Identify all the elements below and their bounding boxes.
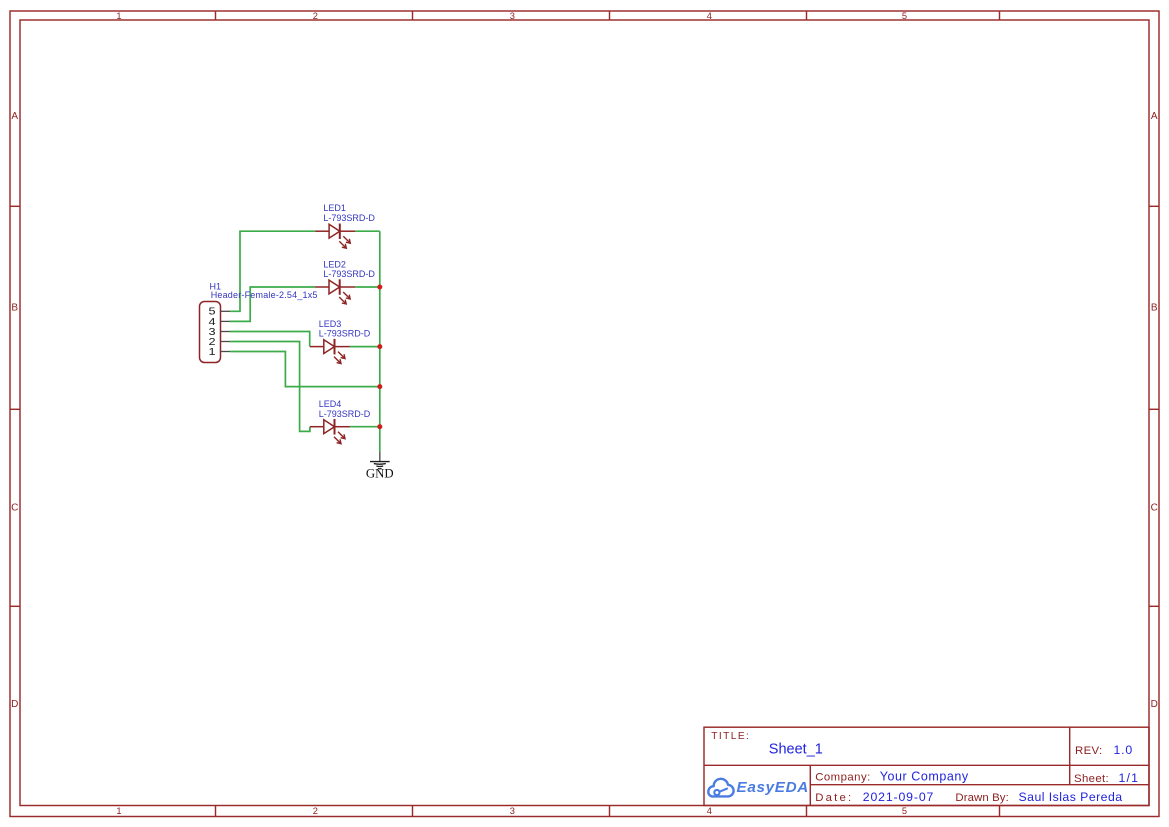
svg-text:1: 1 (116, 11, 121, 21)
H1 pin numbers (208, 306, 216, 358)
svg-text:GND: GND (366, 467, 394, 481)
wire net4 LED2 cathode to bus (355, 286, 380, 288)
svg-text:Your Company: Your Company (880, 769, 969, 783)
LED4 cathode bar (334, 419, 336, 435)
GND bar 2 (374, 463, 386, 466)
LED1 cathode bar (339, 224, 341, 240)
svg-text:Company:: Company: (815, 771, 871, 783)
svg-text:Header-Female-2.54_1x5: Header-Female-2.54_1x5 (211, 290, 318, 300)
wire GND bus vertical (379, 231, 381, 451)
title block column divider logo (809, 765, 811, 805)
LED4 cathode stub (335, 426, 350, 428)
svg-text:B: B (1151, 303, 1158, 314)
top ruler tick 1 (215, 11, 217, 20)
svg-text:L-793SRD-D: L-793SRD-D (323, 269, 375, 279)
junction at LED2 cathode (377, 285, 382, 290)
title block row divider 2 (810, 784, 1149, 786)
LED1 cathode stub (340, 230, 355, 232)
svg-text:C: C (1151, 503, 1158, 514)
wire net2 LED4 cathode to bus (350, 426, 380, 428)
svg-text:L-793SRD-D: L-793SRD-D (319, 409, 371, 419)
title block column divider rev (1069, 727, 1071, 785)
right ruler tick B/C (1149, 408, 1159, 410)
LED3 light arrow 1 (338, 352, 345, 359)
svg-text:LED2: LED2 (323, 260, 346, 270)
svg-text:1/1: 1/1 (1119, 771, 1140, 785)
LED2 light arrow 2 (339, 297, 346, 304)
logo wire line (720, 789, 728, 792)
title block outline (704, 727, 1149, 805)
svg-text:L-793SRD-D: L-793SRD-D (319, 329, 371, 339)
svg-text:D: D (11, 699, 18, 710)
GND bar 3 (376, 465, 383, 468)
svg-text:2: 2 (313, 806, 318, 816)
H1 pin 4 stub (221, 320, 231, 322)
LED1 triangle (329, 224, 340, 238)
LED2 triangle (329, 280, 340, 294)
top ruler tick 2 (412, 11, 414, 20)
wire net5 LED1 cathode to GND bus corner (355, 230, 380, 232)
svg-text:B: B (11, 303, 18, 314)
H1 body (200, 302, 221, 363)
wire net4 pin4 to LED2 (230, 287, 315, 321)
left ruler tick C/D (10, 605, 20, 607)
LED LED2 (315, 260, 375, 305)
LED1 light arrow 2 (339, 241, 346, 248)
bottom ruler tick 1 (215, 806, 217, 817)
H1 pin 1 stub (221, 351, 231, 353)
LED4 triangle (324, 420, 335, 434)
LED3 cathode stub (335, 346, 350, 348)
LED4 light arrow 1 (338, 432, 345, 439)
LED2 cathode bar (339, 279, 341, 295)
junction dots (377, 285, 382, 430)
svg-text:3: 3 (510, 806, 515, 816)
logo cloud (708, 779, 733, 797)
svg-text:Drawn By:: Drawn By: (955, 792, 1008, 804)
junction at LED4 cathode (377, 424, 382, 429)
LED2 anode stub (315, 286, 329, 288)
LED2 light arrow 1 (343, 292, 350, 299)
left ruler tick B/C (10, 408, 20, 410)
LED2 cathode stub (340, 286, 355, 288)
left ruler tick A/B (10, 205, 20, 207)
svg-text:2021-09-07: 2021-09-07 (863, 790, 934, 804)
TITLE BLOCK (704, 727, 1149, 805)
LED3 triangle (324, 340, 335, 354)
svg-text:EasyEDA: EasyEDA (737, 779, 809, 796)
junction at LED3 cathode (377, 344, 382, 349)
H1 pin 3 stub (221, 331, 231, 333)
LED LED4 (310, 399, 371, 444)
svg-text:L-793SRD-D: L-793SRD-D (323, 213, 375, 223)
top ruler tick 5 (999, 11, 1001, 20)
LED1 light arrow 1 (343, 236, 350, 243)
right ruler tick A/B (1149, 205, 1159, 207)
svg-text:D: D (1151, 699, 1158, 710)
junction at net1 bus (377, 384, 382, 389)
svg-text:Saul Islas Pereda: Saul Islas Pereda (1019, 790, 1123, 804)
svg-text:A: A (11, 111, 18, 122)
title block row divider 1 (704, 764, 1149, 766)
LED1 anode stub (315, 230, 329, 232)
top ruler tick 4 (806, 11, 808, 20)
LED4 anode stub (310, 426, 324, 428)
svg-text:LED3: LED3 (319, 319, 342, 329)
H1 pin stubs (221, 311, 231, 351)
svg-text:5: 5 (902, 806, 907, 816)
logo node circle (714, 790, 719, 795)
svg-text:2: 2 (313, 11, 318, 21)
GND bar 1 (370, 461, 390, 463)
LED3 light arrow 2 (334, 357, 341, 364)
svg-text:5: 5 (902, 11, 907, 21)
wires (230, 231, 380, 451)
EasyEDA logo (708, 779, 733, 797)
LED3 cathode bar (334, 339, 336, 355)
svg-text:Sheet:: Sheet: (1074, 773, 1109, 785)
wire net5 pin5 to LED1 (230, 231, 315, 311)
svg-text:1: 1 (116, 806, 121, 816)
wire net3 pin3 to LED3 (230, 332, 310, 347)
H1 pin 2 stub (221, 341, 231, 343)
wire net3 LED3 cathode to bus (350, 346, 380, 348)
svg-text:Date:: Date: (815, 792, 853, 804)
right ruler tick C/D (1149, 605, 1159, 607)
svg-text:4: 4 (707, 11, 712, 21)
header H1 (200, 281, 318, 362)
top ruler tick 3 (609, 11, 611, 20)
svg-text:LED1: LED1 (323, 203, 346, 213)
svg-text:A: A (1151, 111, 1158, 122)
svg-text:TITLE:: TITLE: (711, 731, 750, 742)
svg-text:3: 3 (510, 11, 515, 21)
GND bar 4 (378, 467, 381, 470)
LED3 anode stub (310, 346, 324, 348)
GND stem (379, 451, 381, 461)
svg-text:LED4: LED4 (319, 399, 342, 409)
bottom ruler tick 2 (412, 806, 414, 817)
svg-text:4: 4 (707, 806, 712, 816)
ground GND (366, 451, 394, 480)
wire net1 pin1 to bus (230, 352, 380, 387)
svg-text:1.0: 1.0 (1114, 743, 1134, 757)
bottom ruler tick 5 (999, 806, 1001, 817)
LED4 light arrow 2 (334, 437, 341, 444)
LED LED3 (310, 319, 371, 364)
svg-text:C: C (11, 503, 18, 514)
wire net2 pin2 to LED4 (230, 342, 310, 432)
H1 pin 5 stub (221, 310, 231, 312)
svg-text:Sheet_1: Sheet_1 (769, 741, 823, 757)
CIRCUIT (200, 203, 394, 480)
bottom ruler tick 4 (806, 806, 808, 817)
svg-text:REV:: REV: (1075, 745, 1103, 757)
bottom ruler tick 3 (609, 806, 611, 817)
svg-text:1: 1 (208, 346, 215, 358)
LED LED1 (315, 203, 375, 248)
